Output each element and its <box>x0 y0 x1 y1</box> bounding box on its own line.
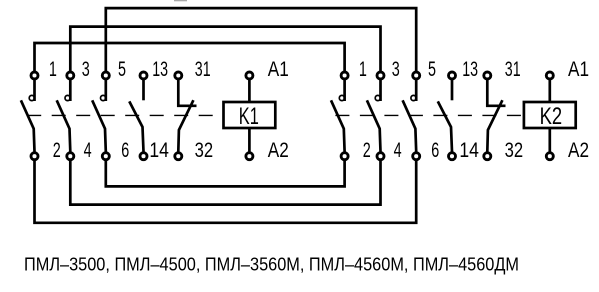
svg-text:14: 14 <box>459 139 479 162</box>
svg-text:ПМЛ–3500, ПМЛ–4500, ПМЛ–3560М,: ПМЛ–3500, ПМЛ–4500, ПМЛ–3560М, ПМЛ–4560М… <box>24 253 519 274</box>
svg-text:5: 5 <box>118 58 126 81</box>
svg-text:A2: A2 <box>268 139 289 162</box>
svg-text:13: 13 <box>462 58 478 81</box>
svg-text:A2: A2 <box>568 139 589 162</box>
svg-text:32: 32 <box>195 139 214 162</box>
svg-text:3: 3 <box>82 58 90 81</box>
svg-text:2: 2 <box>53 139 61 162</box>
svg-text:K1: K1 <box>239 103 259 130</box>
svg-text:4: 4 <box>394 139 402 162</box>
svg-text:3: 3 <box>392 58 400 81</box>
svg-text:1: 1 <box>49 58 57 81</box>
svg-text:6: 6 <box>121 139 129 162</box>
svg-text:5: 5 <box>428 58 436 81</box>
svg-text:31: 31 <box>195 58 211 81</box>
svg-text:1: 1 <box>359 58 367 81</box>
svg-text:2: 2 <box>363 139 371 162</box>
svg-text:6: 6 <box>431 139 439 162</box>
svg-text:A1: A1 <box>268 58 289 81</box>
svg-text:31: 31 <box>505 58 521 81</box>
svg-text:13: 13 <box>152 58 168 81</box>
svg-text:14: 14 <box>149 139 169 162</box>
svg-text:4: 4 <box>84 139 92 162</box>
svg-text:A1: A1 <box>568 58 589 81</box>
svg-text:32: 32 <box>505 139 523 162</box>
svg-text:K2: K2 <box>540 103 563 130</box>
